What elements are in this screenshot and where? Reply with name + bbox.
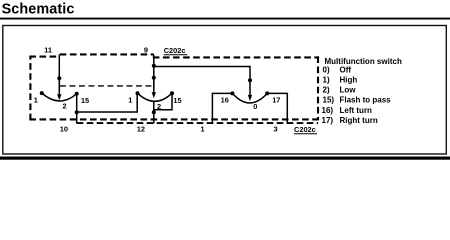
svg-text:C202c: C202c xyxy=(164,46,186,55)
svg-text:Flash to pass: Flash to pass xyxy=(340,95,392,104)
svg-text:Off: Off xyxy=(340,65,352,74)
svg-text:High: High xyxy=(340,75,358,84)
svg-text:15): 15) xyxy=(323,95,335,104)
svg-text:Schematic: Schematic xyxy=(2,1,75,17)
svg-text:1: 1 xyxy=(34,96,38,105)
svg-text:15: 15 xyxy=(81,96,89,105)
svg-text:Right turn: Right turn xyxy=(340,116,378,125)
svg-text:16): 16) xyxy=(322,106,334,115)
svg-text:2: 2 xyxy=(157,102,161,111)
svg-text:16: 16 xyxy=(221,96,229,105)
svg-text:17: 17 xyxy=(272,96,280,105)
svg-text:Multifunction switch: Multifunction switch xyxy=(325,57,402,66)
svg-text:9: 9 xyxy=(144,45,148,54)
svg-text:15: 15 xyxy=(173,96,181,105)
svg-text:17): 17) xyxy=(322,116,334,125)
svg-text:C202c: C202c xyxy=(294,125,316,134)
svg-text:1): 1) xyxy=(323,75,330,84)
svg-text:2: 2 xyxy=(63,102,67,111)
svg-text:3: 3 xyxy=(274,125,278,134)
svg-text:Left turn: Left turn xyxy=(340,106,373,115)
svg-text:2): 2) xyxy=(323,85,330,94)
svg-text:11: 11 xyxy=(44,45,52,54)
svg-text:12: 12 xyxy=(137,125,145,134)
svg-text:Low: Low xyxy=(340,85,357,94)
svg-text:1: 1 xyxy=(201,125,205,134)
svg-text:0: 0 xyxy=(253,102,257,111)
svg-text:10: 10 xyxy=(60,125,68,134)
svg-text:1: 1 xyxy=(128,96,132,105)
svg-text:0): 0) xyxy=(323,65,330,74)
